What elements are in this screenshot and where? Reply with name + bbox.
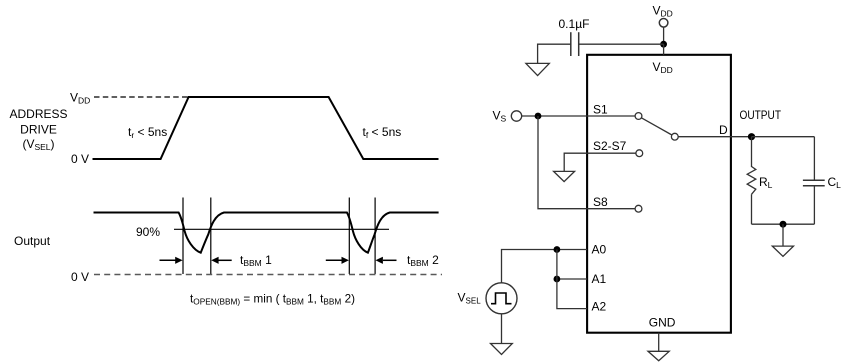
- node junction VDD: [660, 41, 667, 48]
- svg-text:(VSEL): (VSEL): [22, 137, 54, 152]
- resistor RL: [747, 137, 756, 225]
- op-amp U1 multiplexer IC box: [587, 55, 731, 333]
- svg-text:VDD: VDD: [653, 60, 673, 75]
- svg-text:tr < 5ns: tr < 5ns: [128, 125, 167, 140]
- node junction output D: [748, 133, 755, 140]
- wire vertical cursor line 1: [182, 198, 184, 275]
- wire vertical cursor line 4: [374, 198, 376, 275]
- wire output node to CL: [752, 136, 815, 138]
- svg-text:A0: A0: [592, 243, 607, 257]
- svg-text:A1: A1: [592, 272, 607, 286]
- wire 90% reference line: [174, 228, 389, 230]
- wire switch common to output node: [678, 136, 751, 138]
- node junction VS: [535, 113, 542, 120]
- capacitor C bypass plates: [571, 32, 579, 56]
- svg-text:GND: GND: [649, 315, 676, 329]
- svg-text:90%: 90%: [136, 225, 160, 239]
- wire RL-CL bottom rail: [752, 223, 815, 225]
- node VS terminal circle: [511, 111, 521, 121]
- node S1 switch contact circle: [635, 113, 642, 120]
- wire VDD terminal to junction: [663, 27, 665, 44]
- wire VS junction down to S8: [538, 116, 635, 209]
- wire vertical cursor line 2: [210, 198, 212, 275]
- node arrow right into cursor 1: [160, 257, 183, 264]
- node pulse glyph inside VSEL: [491, 293, 512, 304]
- svg-text:tBBM 1: tBBM 1: [240, 253, 272, 268]
- wire output waveform with two BBM dips: [94, 213, 439, 253]
- wire VSEL to ground: [501, 314, 503, 344]
- wire capacitor to ground corner: [538, 44, 571, 63]
- node S2-S7 contact circle: [636, 150, 643, 157]
- wire A0 pin to VSEL corner: [502, 250, 588, 283]
- ground (S2-S7): [554, 171, 575, 181]
- node VDD level dashed reference line: [94, 96, 188, 98]
- svg-text:DRIVE: DRIVE: [20, 123, 57, 137]
- node S8 contact circle: [635, 205, 642, 212]
- svg-text:tBBM 2: tBBM 2: [407, 253, 439, 268]
- capacitor CL: [803, 137, 825, 225]
- node ADDRESS DRIVE (VSEL) label: [9, 107, 67, 152]
- svg-text:0.1µF: 0.1µF: [559, 17, 590, 31]
- ground (load): [772, 246, 793, 256]
- wire VSEL address drive waveform trapezoid: [93, 97, 439, 159]
- svg-text:A2: A2: [592, 300, 607, 314]
- svg-text:OUTPUT: OUTPUT: [740, 108, 782, 122]
- svg-text:CL: CL: [828, 175, 842, 190]
- svg-text:0 V: 0 V: [71, 270, 89, 284]
- svg-text:S1: S1: [593, 103, 608, 117]
- node arrow left into cursor 2: [211, 257, 232, 264]
- ground (bypass cap): [526, 63, 549, 75]
- svg-text:S8: S8: [593, 195, 608, 209]
- wire load rail to ground: [782, 224, 784, 246]
- node junction A1: [554, 276, 561, 283]
- wire S2-S7 to ground corner: [564, 153, 636, 171]
- svg-text:S2-S7: S2-S7: [593, 139, 627, 153]
- svg-text:D: D: [719, 123, 728, 137]
- wire 0V dashed baseline (output): [94, 274, 442, 276]
- wire A0-A1-A2 bus: [557, 250, 587, 309]
- node junction A0: [554, 246, 561, 253]
- node switch common contact circle: [671, 133, 678, 140]
- wire VDD junction to capacitor: [579, 43, 664, 45]
- svg-text:tOPEN(BBM) = min ( tBBM 1, tBB: tOPEN(BBM) = min ( tBBM 1, tBBM 2): [190, 292, 355, 307]
- svg-text:tf < 5ns: tf < 5ns: [363, 125, 402, 140]
- svg-text:0 V: 0 V: [71, 152, 89, 166]
- wire junction to IC VDD pin: [663, 44, 665, 55]
- svg-text:VSEL: VSEL: [458, 290, 482, 305]
- svg-text:RL: RL: [759, 175, 773, 190]
- svg-text:VS: VS: [493, 109, 507, 124]
- wire vertical cursor line 3: [348, 198, 350, 275]
- node arrow right into cursor 3: [326, 257, 349, 264]
- node junction load ground: [780, 221, 787, 228]
- wire A1 pin stub: [557, 278, 587, 280]
- source VSEL pulse generator circle: [486, 283, 517, 314]
- node switch pole arm: [642, 118, 672, 135]
- node VDD terminal circle: [659, 19, 668, 28]
- svg-text:ADDRESS: ADDRESS: [9, 107, 67, 121]
- wire GND pin to ground: [658, 333, 660, 352]
- node arrow left into cursor 4: [376, 257, 397, 264]
- svg-text:VDD: VDD: [70, 91, 90, 106]
- ground (VSEL): [491, 344, 513, 355]
- svg-text:VDD: VDD: [653, 4, 673, 19]
- wire VS to S1 pin: [522, 115, 635, 117]
- ground (IC GND): [648, 351, 669, 360]
- svg-text:Output: Output: [14, 234, 51, 248]
